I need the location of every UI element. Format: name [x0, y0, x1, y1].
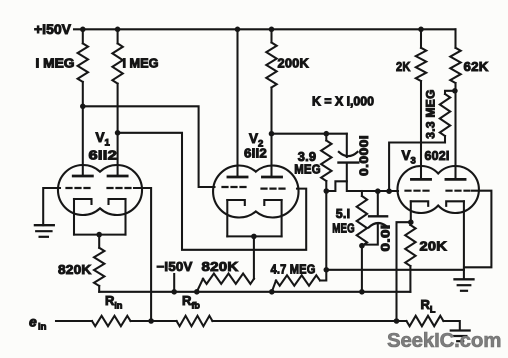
label 6112 (V1) — [89, 148, 118, 163]
grid G2 of V3 (dashed) — [447, 190, 470, 192]
cathode K2 of V1 — [109, 199, 126, 204]
label 5.1 MEG — [332, 206, 355, 236]
junction 820K left — [194, 289, 200, 295]
power label +150V — [34, 21, 72, 37]
plate P1 of V3 — [411, 178, 430, 181]
label K = X 1,000 — [312, 95, 374, 109]
triode V3 envelope — [397, 166, 478, 213]
resistor 3.3 MEG (feedback) — [440, 91, 455, 143]
svg-text:0.000I: 0.000I — [359, 135, 371, 176]
junction 5.1MEG/0.01 bottom — [359, 243, 365, 249]
plate P1 of V2 — [228, 176, 247, 179]
svg-text:3.3 MEG: 3.3 MEG — [424, 89, 438, 138]
junction 4.7MEG left — [269, 289, 275, 295]
triode V1 envelope — [58, 165, 142, 215]
grid G1 of V1 (dashed) — [67, 187, 90, 189]
grid G2 of V2 (dashed) — [262, 188, 285, 190]
ground (RL return) — [451, 331, 470, 342]
label 200K — [278, 56, 310, 71]
wire input node segment — [131, 320, 177, 322]
wire V3 cathode to output (RL) — [397, 222, 411, 321]
junction input node — [148, 318, 154, 324]
junction V3 grid 1 node — [386, 188, 392, 194]
label R_fb — [182, 293, 200, 311]
resistor R_fb — [177, 316, 213, 326]
wire +150V rail — [74, 28, 456, 30]
resistor 3.9 MEG — [321, 134, 331, 191]
wire V2 cathodes common — [227, 200, 281, 236]
capacitor 0.0001 bottom lead — [346, 163, 348, 182]
label 3.9 MEG — [294, 149, 321, 177]
cathode K2 of V3 — [446, 201, 464, 206]
junction V2 plate 2 node — [269, 131, 275, 137]
junction node on rail (V2 plate tap) — [235, 27, 241, 33]
capacitor 0.0001 plates — [339, 152, 359, 163]
resistor 4.7 MEG — [272, 270, 327, 292]
label 62K — [464, 59, 489, 74]
plate P2 of V1 — [108, 175, 127, 178]
cathode K1 of V2 — [227, 200, 245, 205]
label 6021 (V3) — [425, 149, 450, 163]
grid G1 of V3 (dashed) — [406, 190, 429, 192]
svg-text:200K: 200K — [278, 56, 310, 71]
resistor 820K (V2 cathode) — [197, 274, 254, 292]
svg-text:6II2: 6II2 — [244, 146, 267, 161]
label R_L — [421, 297, 436, 315]
resistor R_L — [407, 316, 444, 326]
ground (V1 input grid) — [35, 225, 54, 237]
svg-text:0.0I: 0.0I — [379, 225, 393, 252]
capacitor 0.01 (top lead) — [377, 191, 379, 216]
junction 0.01 top — [375, 188, 381, 194]
wire V1 cathodes common — [74, 199, 126, 235]
wire V3 grid 2 return — [464, 191, 491, 268]
svg-text:e: e — [29, 314, 37, 330]
junction V3 cathode 1 node — [408, 219, 414, 225]
label 820K (V1 cathode) — [58, 262, 92, 277]
wire V3 cathode 1 lead — [410, 201, 412, 222]
label 820K (V2 cathode) — [202, 259, 239, 274]
svg-text:62K: 62K — [464, 59, 489, 74]
label 0.0001 (rotated) — [359, 135, 371, 176]
svg-text:K = X I,000: K = X I,000 — [312, 95, 374, 109]
svg-text:6II2: 6II2 — [89, 148, 118, 163]
svg-text:820K: 820K — [202, 259, 239, 274]
wire divider junction to ground bus — [326, 269, 464, 271]
junction V1 cathode node — [96, 232, 102, 238]
svg-text:4.7 MEG: 4.7 MEG — [271, 262, 316, 277]
svg-text:+I50V: +I50V — [34, 21, 72, 37]
label V3 — [402, 148, 416, 167]
wire 3.3MEG to V3 grid 1 — [389, 143, 445, 192]
grid G2 of V1 (dashed) — [108, 187, 131, 189]
wire -150V supply tick — [173, 274, 175, 292]
junction 5.1MEG at -150V bus — [359, 289, 365, 295]
capacitor 0.0001 (top lead) — [346, 134, 348, 157]
label 6112 (V2) — [244, 146, 267, 161]
label -150V — [157, 259, 193, 274]
junction 3.9 MEG top — [324, 131, 330, 137]
wire V2 plate 1 lead — [236, 29, 238, 177]
junction node on rail (200K tap) — [269, 27, 275, 33]
wire feedback line to output — [212, 320, 406, 322]
label 3.3 MEG (rotated) — [424, 89, 438, 138]
capacitor 0.01 bottom lead — [362, 225, 378, 245]
label e_in — [29, 314, 47, 333]
label 0.01 (rotated) — [379, 225, 393, 252]
wire V2 plate 2 lead — [270, 134, 272, 177]
resistor 1 MEG (second, V1 plate load) — [112, 29, 122, 133]
plate P2 of V3 — [446, 178, 465, 181]
junction 62K / 3.3MEG node — [452, 88, 458, 94]
svg-text:SeekIC.com: SeekIC.com — [387, 329, 501, 352]
wire V1 plate 1 lead — [82, 106, 84, 176]
junction node on rail (1 MEG R1 tap) — [80, 27, 86, 33]
wire RL to ground — [443, 321, 459, 331]
wire V1 grid 2 to input node — [134, 188, 151, 321]
label 1 MEG (second) — [123, 56, 159, 71]
wire V2 plate node to divider — [272, 133, 347, 135]
ground (V3 cathode 2) — [455, 279, 474, 291]
wire V3 cathode 2 to ground — [463, 201, 465, 279]
wire V1 plate 2 lead — [117, 133, 119, 176]
junction -150V tap — [171, 289, 177, 295]
cathode K1 of V1 — [74, 199, 92, 204]
label 2K — [396, 59, 411, 74]
resistor 1 MEG (first, V1 plate load) — [78, 29, 88, 106]
svg-text:5.I: 5.I — [336, 206, 351, 221]
svg-text:2K: 2K — [396, 59, 411, 74]
plate P2 of V2 — [262, 176, 281, 179]
junction grid node V3 (3.9MEG bottom) — [324, 188, 330, 194]
wire V1 grid 1 to ground — [43, 188, 60, 225]
svg-text:602I: 602I — [425, 149, 450, 163]
junction node on rail (1 MEG R2 tap) — [115, 27, 121, 33]
capacitor 0.01 plates — [369, 216, 388, 227]
plate P1 of V1 — [73, 175, 92, 178]
svg-text:I MEG: I MEG — [36, 56, 75, 71]
node A junction (V1 plate 1 / wire to V2 grid) — [80, 104, 86, 110]
wire -150V bus — [99, 291, 410, 293]
junction output node — [394, 318, 400, 324]
resistor R_in — [92, 316, 131, 326]
svg-text:in: in — [38, 322, 47, 333]
wire grid node with jog under capacitor — [326, 181, 398, 191]
cathode K2 of V2 — [264, 200, 281, 205]
svg-text:20K: 20K — [420, 239, 448, 254]
resistor 62K — [450, 29, 460, 179]
wire input line — [56, 320, 92, 322]
resistor 200K (V2 plate load) — [266, 29, 276, 133]
label R_in — [105, 293, 122, 311]
cathode K1 of V3 — [411, 201, 428, 206]
svg-text:MEG: MEG — [294, 162, 321, 177]
wire V2 cathode to 820K — [253, 236, 255, 278]
label 4.7 MEG — [271, 262, 316, 277]
svg-text:820K: 820K — [58, 262, 92, 277]
label 1 MEG (first) — [36, 56, 75, 71]
svg-text:−I50V: −I50V — [157, 259, 193, 274]
svg-text:MEG: MEG — [332, 221, 355, 236]
resistor 5.1 MEG — [357, 191, 367, 292]
triode V2 envelope — [213, 166, 298, 218]
wire node A to V2 grid 1 — [83, 106, 215, 187]
junction node on rail (2K tap) — [418, 27, 424, 33]
label V2 — [249, 131, 263, 150]
junction V2 cathode node — [251, 234, 257, 240]
grid G1 of V2 (dashed) — [223, 186, 246, 188]
resistor 20K (V3 cathode) — [405, 222, 415, 292]
junction 4.7MEG / 3.9MEG node — [324, 267, 330, 273]
watermark SeekIC.com — [387, 329, 501, 352]
label 20K — [420, 239, 448, 254]
wire grid node down to 4.7MEG junction — [325, 191, 327, 270]
wire node B to V2 grid 2 — [118, 133, 307, 250]
label V1 — [96, 130, 111, 149]
node B junction (V1 plate 2 / wire to V2 grid 2) — [115, 130, 121, 136]
resistor 820K (V1 cathode) — [94, 235, 104, 292]
svg-text:I MEG: I MEG — [123, 56, 159, 71]
resistor 2K (V3 plate load) — [416, 29, 426, 179]
